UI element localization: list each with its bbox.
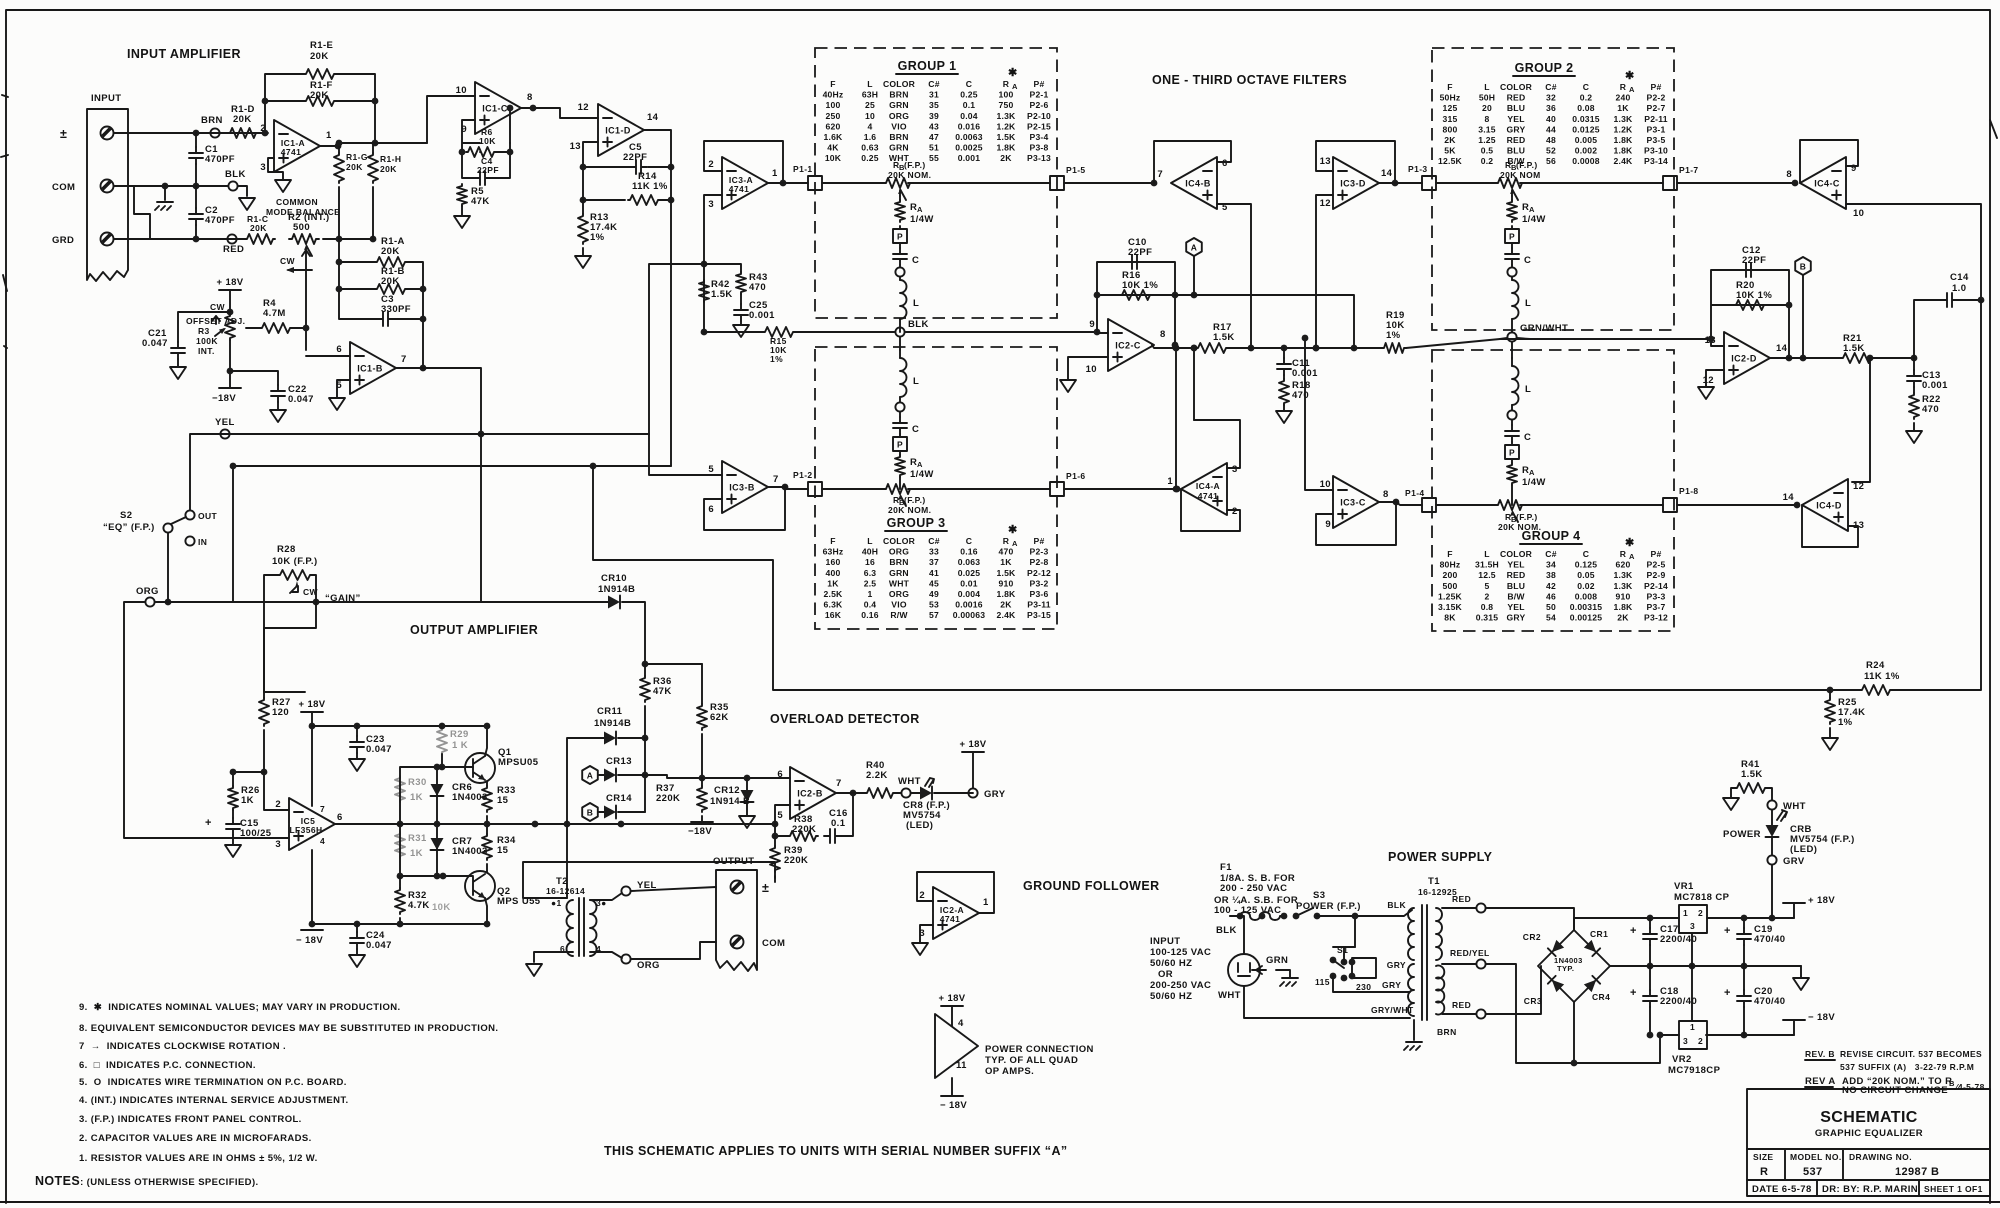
svg-text:C: C bbox=[1583, 549, 1589, 559]
svg-text:C14: C14 bbox=[1950, 272, 1969, 283]
svg-text:C: C bbox=[966, 536, 972, 546]
svg-text:1N914 B: 1N914 B bbox=[710, 796, 750, 807]
svg-text:20K: 20K bbox=[310, 90, 329, 101]
resistor R37 220K bbox=[701, 778, 703, 786]
potentiometer RB 20K group2 bbox=[1495, 178, 1525, 188]
svg-text:0.00315: 0.00315 bbox=[1570, 602, 1602, 612]
svg-text:P1-8: P1-8 bbox=[1679, 486, 1699, 496]
svg-text:SHEET 1 OF1: SHEET 1 OF1 bbox=[1924, 1184, 1983, 1194]
wire termination circle bbox=[1507, 410, 1516, 419]
svg-text:240: 240 bbox=[1616, 93, 1631, 103]
svg-text:6: 6 bbox=[708, 504, 714, 515]
svg-text:P3-11: P3-11 bbox=[1027, 600, 1050, 610]
svg-text:C: C bbox=[1524, 432, 1531, 443]
svg-text:BLK: BLK bbox=[908, 319, 929, 330]
svg-text:12: 12 bbox=[1853, 481, 1864, 492]
svg-text:INPUT AMPLIFIER: INPUT AMPLIFIER bbox=[127, 47, 241, 61]
svg-text:8: 8 bbox=[527, 92, 533, 103]
svg-text:0.63: 0.63 bbox=[861, 143, 879, 153]
svg-text:MODEL NO.: MODEL NO. bbox=[1790, 1152, 1842, 1162]
resistor R1-A 20K bbox=[375, 257, 407, 267]
svg-text:44: 44 bbox=[1546, 124, 1556, 134]
svg-text:R3: R3 bbox=[198, 326, 210, 336]
wire EQ staircase to R24 bus bbox=[593, 466, 1830, 690]
svg-text:15: 15 bbox=[497, 845, 509, 856]
wire IC3-D pin12 riser bbox=[1316, 195, 1333, 348]
svg-text:0.315: 0.315 bbox=[1476, 613, 1499, 623]
wire YEL bbox=[190, 434, 649, 510]
capacitor C (group chain) bbox=[893, 248, 907, 265]
svg-text:BLU: BLU bbox=[1507, 581, 1525, 591]
inductor L (group chain) bbox=[1511, 358, 1513, 366]
svg-text:12: 12 bbox=[1703, 375, 1714, 386]
svg-text:20K: 20K bbox=[381, 276, 400, 287]
svg-text:0.0125: 0.0125 bbox=[1572, 124, 1600, 134]
filter chain group 3 bbox=[899, 337, 901, 350]
svg-text:RED: RED bbox=[1452, 894, 1471, 904]
filter chain group 4 bbox=[1511, 342, 1513, 358]
capacitor C15 100/25 bbox=[226, 818, 240, 835]
wire IC1-A out to IC1-C pin10 bbox=[427, 96, 475, 143]
svg-text:1.0: 1.0 bbox=[1952, 283, 1966, 294]
svg-text:B: B bbox=[587, 808, 594, 818]
resistor R17 1.5K bbox=[1196, 343, 1228, 353]
svg-text:32: 32 bbox=[1546, 93, 1556, 103]
svg-text:P#: P# bbox=[1034, 79, 1045, 89]
svg-text:0.25: 0.25 bbox=[960, 90, 978, 100]
svg-text:1.8K: 1.8K bbox=[1614, 135, 1634, 145]
svg-text:GRN: GRN bbox=[889, 143, 909, 153]
svg-text:200: 200 bbox=[1443, 570, 1458, 580]
svg-text:100-125 VAC: 100-125 VAC bbox=[1150, 947, 1211, 958]
svg-text:P3-12: P3-12 bbox=[1644, 613, 1668, 623]
wire bbox=[899, 319, 901, 332]
svg-text:CR2: CR2 bbox=[1523, 932, 1541, 942]
wire termination circle bbox=[1507, 267, 1516, 276]
hatched ground on COM jog bbox=[164, 186, 166, 200]
capacitor C23 0.047 bbox=[356, 726, 358, 736]
svg-text:0.16: 0.16 bbox=[960, 547, 978, 557]
svg-text:+: + bbox=[1724, 925, 1731, 937]
svg-text:10K: 10K bbox=[479, 136, 496, 146]
svg-text:1.3K: 1.3K bbox=[1614, 114, 1634, 124]
svg-text:120: 120 bbox=[272, 707, 289, 718]
svg-text:50Hz: 50Hz bbox=[1440, 93, 1461, 103]
svg-text:14: 14 bbox=[647, 112, 659, 123]
svg-text:IC1-C: IC1-C bbox=[482, 104, 508, 114]
termination BLK bbox=[228, 181, 237, 190]
svg-text:2K: 2K bbox=[1000, 153, 1012, 163]
termination BLK chain bbox=[895, 327, 904, 336]
svg-text:C#: C# bbox=[1545, 82, 1556, 92]
svg-text:BLK: BLK bbox=[1387, 900, 1406, 910]
svg-text:C: C bbox=[912, 255, 919, 266]
resistor R18 470 bbox=[1283, 375, 1285, 379]
svg-text:4.7K: 4.7K bbox=[408, 900, 430, 911]
svg-text:10: 10 bbox=[1320, 479, 1331, 490]
resistor R1-B 20K bbox=[375, 284, 407, 294]
svg-text:34: 34 bbox=[1546, 560, 1556, 570]
svg-text:R29: R29 bbox=[450, 729, 469, 740]
svg-text:470: 470 bbox=[999, 547, 1014, 557]
svg-text:63Hz: 63Hz bbox=[823, 547, 844, 557]
svg-text:✱: ✱ bbox=[1008, 67, 1018, 79]
svg-text:10K 1%: 10K 1% bbox=[1122, 280, 1158, 291]
svg-text:C: C bbox=[966, 79, 972, 89]
transistor Q2 MPSU55 bbox=[465, 871, 495, 901]
svg-text:0.00125: 0.00125 bbox=[1570, 613, 1602, 623]
svg-text:R1-G: R1-G bbox=[346, 152, 368, 162]
capacitor C4 22pF bbox=[462, 152, 474, 178]
plug symbol bbox=[1228, 916, 1260, 986]
svg-text:0.25: 0.25 bbox=[861, 153, 879, 163]
svg-text:MPSU05: MPSU05 bbox=[498, 757, 539, 768]
capacitor C13 0.001 bbox=[1913, 358, 1915, 370]
wire GRD row bbox=[114, 238, 246, 240]
svg-text:R/W: R/W bbox=[890, 610, 908, 620]
ground below R5 bbox=[454, 216, 470, 228]
svg-text:GRN: GRN bbox=[889, 568, 909, 578]
svg-text:SIZE: SIZE bbox=[1753, 1152, 1774, 1162]
wire R39 to T2 bbox=[523, 862, 775, 898]
wire R2 to R1-G/H rail bbox=[323, 238, 375, 240]
svg-text:CR1: CR1 bbox=[1590, 929, 1608, 939]
svg-text:0.016: 0.016 bbox=[958, 121, 981, 131]
svg-text:(F.P.): (F.P.) bbox=[904, 160, 926, 170]
svg-text:A: A bbox=[587, 771, 594, 781]
svg-text:43: 43 bbox=[929, 121, 939, 131]
svg-text:2: 2 bbox=[1698, 908, 1703, 918]
svg-text:9: 9 bbox=[1089, 319, 1095, 330]
op-amp IC3-A 4741 bbox=[722, 157, 768, 209]
svg-text:3: 3 bbox=[275, 839, 281, 850]
feedback loop IC2-A bbox=[917, 872, 994, 913]
svg-text:P3-6: P3-6 bbox=[1030, 589, 1049, 599]
svg-text:BLK: BLK bbox=[225, 169, 246, 180]
svg-text:1.5K: 1.5K bbox=[1843, 343, 1865, 354]
capacitor C14 1.0 bbox=[1941, 293, 1958, 307]
svg-text:22PF: 22PF bbox=[1742, 255, 1766, 266]
svg-text:11: 11 bbox=[956, 1060, 967, 1071]
svg-text:P: P bbox=[897, 232, 903, 242]
svg-text:GROUP 3: GROUP 3 bbox=[887, 516, 946, 530]
svg-text:500: 500 bbox=[1443, 581, 1458, 591]
svg-text:0.0008: 0.0008 bbox=[1572, 156, 1600, 166]
wire ORG to gain node bbox=[168, 601, 608, 603]
svg-text:2.4K: 2.4K bbox=[1614, 156, 1634, 166]
svg-text:BLU: BLU bbox=[1507, 146, 1525, 156]
svg-text:6: 6 bbox=[336, 344, 342, 355]
svg-text:⁄4-5-78: ⁄4-5-78 bbox=[1954, 1082, 1985, 1092]
svg-text:22PF: 22PF bbox=[1128, 247, 1152, 258]
trunk wire 4 bbox=[1379, 502, 1797, 505]
svg-text:OUTPUT: OUTPUT bbox=[713, 856, 754, 867]
ground below R25 bbox=[1822, 738, 1838, 750]
op-amp IC2-C bbox=[1108, 319, 1154, 371]
svg-text:0.2: 0.2 bbox=[1580, 93, 1593, 103]
supply -18V rail bbox=[1783, 1020, 1805, 1035]
svg-text:C: C bbox=[1583, 82, 1589, 92]
inductor L (group chain) bbox=[1512, 280, 1519, 319]
svg-text:0.8: 0.8 bbox=[1481, 602, 1494, 612]
wire overload input bbox=[645, 775, 790, 778]
svg-text:SCHEMATIC: SCHEMATIC bbox=[1820, 1109, 1918, 1126]
wire bridge bottom bbox=[1573, 1002, 1575, 1063]
feedback loop IC3-A bbox=[704, 141, 783, 183]
svg-text:10: 10 bbox=[456, 85, 467, 96]
svg-text:22PF: 22PF bbox=[477, 165, 499, 175]
svg-text:P#: P# bbox=[1651, 549, 1662, 559]
resistor R1-G 20K bbox=[338, 143, 340, 153]
svg-text:11K 1%: 11K 1% bbox=[1864, 671, 1900, 682]
svg-text:470/40: 470/40 bbox=[1754, 934, 1785, 945]
wire R28 right end down to GAIN bbox=[312, 575, 316, 602]
wire IC1-D output down bbox=[644, 130, 671, 466]
LED CR8 (F.P.) MV5754 bbox=[911, 792, 920, 794]
resistor R21 1.5K bbox=[1841, 353, 1873, 363]
svg-text:6. □ INDICATES P.C. CONNECT: 6. □ INDICATES P.C. CONNECTION. bbox=[79, 1060, 256, 1071]
svg-text:1%: 1% bbox=[770, 354, 783, 364]
svg-text:IC3-B: IC3-B bbox=[729, 483, 755, 493]
svg-text:12987 B: 12987 B bbox=[1895, 1166, 1939, 1178]
svg-text:36: 36 bbox=[1546, 103, 1556, 113]
op-amp IC2-D bbox=[1724, 332, 1770, 384]
svg-text:RED: RED bbox=[223, 244, 244, 255]
svg-text:48: 48 bbox=[1546, 135, 1556, 145]
svg-text:10K (F.P.): 10K (F.P.) bbox=[272, 556, 318, 567]
svg-text:✱: ✱ bbox=[1625, 70, 1635, 82]
svg-text:4741: 4741 bbox=[940, 914, 961, 924]
feedback right riser to IC1-B out bbox=[394, 262, 423, 368]
svg-text:3.15K: 3.15K bbox=[1438, 602, 1463, 612]
capacitor C16 0.1 bbox=[824, 829, 841, 843]
wire to C21 bbox=[178, 312, 230, 342]
svg-text:1: 1 bbox=[772, 168, 778, 179]
wire EQ bus horizontal bbox=[233, 465, 671, 467]
wire CR11 line bbox=[567, 738, 604, 898]
op-amp IC3-C bbox=[1333, 476, 1379, 528]
termination YEL bbox=[220, 429, 229, 438]
resistor R26 1K bbox=[232, 772, 234, 786]
svg-text:P2-3: P2-3 bbox=[1030, 547, 1049, 557]
wire IC2-B output bbox=[836, 792, 865, 794]
svg-text:0.001: 0.001 bbox=[749, 310, 775, 321]
svg-text:C#: C# bbox=[928, 79, 939, 89]
svg-text:+: + bbox=[205, 817, 212, 829]
svg-text:6: 6 bbox=[337, 812, 343, 823]
svg-text:OP AMPS.: OP AMPS. bbox=[985, 1066, 1034, 1077]
svg-text:100: 100 bbox=[826, 100, 841, 110]
svg-text:12.5: 12.5 bbox=[1478, 570, 1496, 580]
termination BRN bbox=[210, 128, 219, 137]
svg-text:✱: ✱ bbox=[1625, 537, 1635, 549]
svg-text:POWER SUPPLY: POWER SUPPLY bbox=[1388, 850, 1493, 864]
svg-text:1.8K: 1.8K bbox=[1614, 602, 1634, 612]
svg-text:39: 39 bbox=[929, 111, 939, 121]
svg-text:0.047: 0.047 bbox=[366, 744, 392, 755]
svg-text:L: L bbox=[913, 298, 919, 309]
svg-text:BRN: BRN bbox=[889, 557, 908, 567]
wire R4 to riser bbox=[292, 250, 310, 350]
feedback risers IC1-A bbox=[265, 74, 304, 133]
svg-text:INPUT: INPUT bbox=[91, 93, 122, 104]
svg-text:10: 10 bbox=[1853, 208, 1864, 219]
svg-text:VR1: VR1 bbox=[1674, 881, 1694, 892]
svg-text:13: 13 bbox=[1320, 156, 1331, 167]
svg-text:80Hz: 80Hz bbox=[1440, 560, 1461, 570]
svg-text:+ 18V: + 18V bbox=[1808, 895, 1835, 906]
svg-text:330PF: 330PF bbox=[381, 304, 411, 315]
svg-text:P2-10: P2-10 bbox=[1027, 111, 1051, 121]
P.C. square P1-3 bbox=[1422, 176, 1436, 190]
svg-text:P3-10: P3-10 bbox=[1644, 146, 1668, 156]
ground below C21 bbox=[170, 367, 186, 379]
svg-text:VIO: VIO bbox=[891, 600, 907, 610]
GROUP 1 dashed box bbox=[815, 48, 1057, 318]
svg-text:OR: OR bbox=[1158, 969, 1173, 980]
termination YEL T2 bbox=[590, 893, 622, 900]
svg-text:P3-2: P3-2 bbox=[1030, 578, 1049, 588]
resistor R16 10K 1% bbox=[1120, 290, 1152, 300]
svg-text:GRY: GRY bbox=[1507, 613, 1526, 623]
svg-text:220K: 220K bbox=[656, 793, 680, 804]
P.C. connection square P bbox=[893, 229, 907, 243]
wire CR11-CR13 riser bbox=[644, 738, 646, 812]
P.C. connection square P bbox=[1505, 229, 1519, 243]
wire VR1 pin3 down bbox=[1691, 933, 1693, 966]
capacitor C1 470pF bbox=[195, 133, 197, 147]
svg-text:●1: ●1 bbox=[551, 898, 562, 908]
wire IC3-B pin5 bbox=[649, 434, 722, 475]
svg-text:P2-7: P2-7 bbox=[1647, 103, 1666, 113]
ground below BLK bbox=[239, 198, 255, 210]
output bus IC2-C bbox=[1152, 339, 1711, 348]
wire EQ bus left riser bbox=[232, 466, 234, 602]
svg-text:15: 15 bbox=[497, 795, 509, 806]
svg-text:1: 1 bbox=[326, 130, 332, 141]
revision notes bbox=[1805, 1049, 1985, 1096]
svg-text:3: 3 bbox=[1683, 1036, 1688, 1046]
wire IC5 pin3 from ORG bus bbox=[124, 602, 289, 838]
capacitor C21 0.047 bbox=[171, 342, 185, 359]
power connection triangle bbox=[935, 1014, 978, 1078]
svg-text:L: L bbox=[1484, 549, 1489, 559]
resistor R34 15 bbox=[486, 824, 488, 834]
wire IC3-C pin10 riser bbox=[1305, 338, 1333, 490]
svg-text:−18V: −18V bbox=[212, 393, 236, 404]
svg-text:DR: BY: R.P. MARIN: DR: BY: R.P. MARIN bbox=[1822, 1184, 1918, 1195]
svg-text:9: 9 bbox=[1325, 519, 1331, 530]
wire IC1-B pin6 bbox=[306, 355, 350, 357]
svg-text:CR3: CR3 bbox=[1524, 996, 1542, 1006]
svg-text:P1-7: P1-7 bbox=[1679, 165, 1699, 175]
feedback loop IC2-D bbox=[1711, 270, 1789, 358]
svg-text:10K: 10K bbox=[825, 153, 842, 163]
trunk wire 1 bbox=[768, 182, 1154, 184]
svg-text:P2-15: P2-15 bbox=[1027, 121, 1051, 131]
svg-text:− 18V: − 18V bbox=[1808, 1012, 1835, 1023]
svg-text:VIO: VIO bbox=[891, 121, 907, 131]
wire GRN/WHT bus segment bbox=[1500, 338, 1530, 339]
svg-text:P2-5: P2-5 bbox=[1647, 560, 1666, 570]
svg-text:OVERLOAD DETECTOR: OVERLOAD DETECTOR bbox=[770, 712, 920, 726]
wire CR10 to R36 node bbox=[622, 602, 702, 664]
svg-text:20K: 20K bbox=[233, 114, 252, 125]
svg-text:BRN: BRN bbox=[889, 132, 908, 142]
resistor R25 17.4K 1% bbox=[1829, 690, 1831, 698]
svg-text:470: 470 bbox=[749, 282, 766, 293]
transistor Q1 MPSU05 bbox=[465, 753, 495, 783]
svg-text:55: 55 bbox=[929, 153, 939, 163]
svg-text:GRY: GRY bbox=[1507, 124, 1526, 134]
resistor R22 470 bbox=[1913, 387, 1915, 393]
svg-text:10K 1%: 10K 1% bbox=[1736, 290, 1772, 301]
svg-text:P2-9: P2-9 bbox=[1647, 570, 1666, 580]
wire Q1 base/collector bbox=[442, 726, 487, 767]
wire BLK bus bbox=[704, 331, 1097, 333]
wire T2 to output block bbox=[631, 887, 716, 959]
svg-text:GRAPHIC EQUALIZER: GRAPHIC EQUALIZER bbox=[1815, 1128, 1923, 1139]
wire S1 group bbox=[1333, 947, 1410, 992]
capacitor C24 0.047 bbox=[356, 924, 358, 932]
svg-text:A: A bbox=[1529, 468, 1535, 477]
resistor R40 2.2K bbox=[865, 788, 895, 798]
svg-text:IN: IN bbox=[198, 537, 207, 547]
svg-text:11K 1%: 11K 1% bbox=[632, 181, 668, 192]
svg-text:− 18V: − 18V bbox=[296, 935, 323, 946]
potentiometer R2 (INT.) 500 COMMON MODE BALANCE bbox=[289, 234, 319, 244]
svg-text:8K: 8K bbox=[1444, 613, 1456, 623]
svg-text:ORG: ORG bbox=[889, 589, 909, 599]
wire bridge mid rail bbox=[1610, 965, 1801, 967]
svg-text:C#: C# bbox=[1545, 549, 1556, 559]
svg-text:8: 8 bbox=[1383, 489, 1389, 500]
trunk wire 2 bbox=[768, 487, 1177, 489]
wire LED to GRY bbox=[934, 792, 973, 794]
wire bbox=[1511, 485, 1513, 505]
svg-text:42: 42 bbox=[1546, 581, 1556, 591]
svg-text:0.0025: 0.0025 bbox=[955, 143, 983, 153]
svg-text:WHT: WHT bbox=[1783, 801, 1806, 812]
svg-text:4741: 4741 bbox=[1198, 491, 1219, 501]
svg-text:P1-1: P1-1 bbox=[793, 164, 813, 174]
svg-text:3: 3 bbox=[1232, 464, 1238, 475]
resistor R38 220K bbox=[788, 831, 818, 841]
svg-text:16K: 16K bbox=[825, 610, 842, 620]
supply +18V output amp bbox=[301, 711, 323, 713]
ground R41 bbox=[1723, 798, 1739, 810]
potentiometer R3 100K INT offset adj bbox=[225, 314, 235, 340]
svg-text:47: 47 bbox=[929, 132, 939, 142]
T1 secondary wires bbox=[1442, 907, 1476, 909]
GROUP 1 table bbox=[823, 67, 1051, 163]
resistor R35 62K bbox=[701, 664, 703, 704]
supply -18V rail bbox=[312, 850, 487, 924]
svg-text:1.5K: 1.5K bbox=[1213, 332, 1235, 343]
svg-text:500: 500 bbox=[293, 222, 310, 233]
wire VR2 pin1 up bbox=[1691, 966, 1693, 1021]
svg-text:46: 46 bbox=[1546, 591, 1556, 601]
svg-text:0.0063: 0.0063 bbox=[955, 132, 983, 142]
svg-text:P2-2: P2-2 bbox=[1647, 93, 1666, 103]
svg-text:0.125: 0.125 bbox=[1575, 560, 1598, 570]
resistor RA 1/4W (group chain) bbox=[899, 196, 901, 200]
resistor RA 1/4W (group chain) bbox=[1511, 196, 1513, 200]
feedback loop IC4-D bbox=[1802, 505, 1858, 547]
svg-text:9. ✱ INDICATES NOMINAL VAL: 9. ✱ INDICATES NOMINAL VALUES; MAY VARY … bbox=[79, 1002, 401, 1013]
svg-text:1K: 1K bbox=[1000, 557, 1012, 567]
svg-text:NOTES: (UNLESS OTHERWISE SPE: NOTES: (UNLESS OTHERWISE SPECIFIED). bbox=[35, 1174, 259, 1188]
